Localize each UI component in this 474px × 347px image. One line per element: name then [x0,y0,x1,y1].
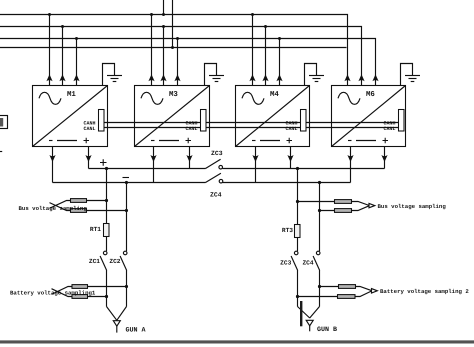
wire gun A + feeder upper [106,169,108,252]
wire AC drop 3 [76,39,78,86]
svg-text:M1: M1 [67,91,76,99]
wire gun A + feeder lower [106,270,108,306]
junction battery sampling 2 upper [318,285,321,288]
module M1 AC sine symbol [39,92,61,104]
junction top 1 [48,13,51,16]
wire DC lead M6 - [350,147,352,183]
resistor bus sampling A lower [71,209,87,213]
wire battery sampling 2 upper [320,287,372,291]
module M3 minus mark [151,140,155,142]
wire DC lead M3 - [153,147,155,183]
contactor ZC3 contact [219,165,223,169]
DC lead arrow M6 + [381,155,387,162]
junction battery sampling 1 lower [105,295,108,298]
junction top 3 [162,13,165,16]
switch ZC3 gunB [294,251,298,255]
module M6 plus mark [383,138,389,144]
junction bus sampling A upper [105,199,108,202]
module M3 plus mark [186,138,192,144]
junction battery sampling 1 upper [125,285,128,288]
wire DC lead M4 - [255,147,257,183]
DC lead arrow M3 + [186,155,192,162]
module M3 bar mark [159,140,179,142]
AC input arrow 10 [344,74,350,81]
ground of module M3 [205,64,217,86]
module M3 CAN connector [201,110,207,132]
AC input arrow 5 [160,74,166,81]
ground of module M6 [401,64,413,86]
wire AC bus line 2 [0,27,362,86]
module M1 plus mark [84,138,90,144]
junction top 9 [176,37,179,40]
AC input arrow 4 [148,74,154,81]
wire AC drop 5 [163,27,165,86]
wire + bus right [223,168,385,170]
wire bus sampling A upper [50,201,107,209]
wire AC drop 2 [62,27,64,86]
contactor ZC3 blade [206,159,221,168]
junction top 2 [150,13,153,16]
junction top 7 [264,25,267,28]
AC input arrow 12 [372,74,378,81]
AC input arrow 7 [249,74,255,81]
wire battery sampling 1 lower [52,289,107,297]
AC input arrow 6 [174,74,180,81]
junction DC bus 4 [318,181,321,184]
svg-text:CANL: CANL [185,126,197,132]
cropped component at left edge [0,116,8,129]
wire DC lead M1 + [88,147,90,169]
svg-text:CANL: CANL [383,126,395,132]
wire gun A - feeder lower [126,270,128,306]
wire gun A funnel [107,307,127,321]
module M6 bar mark [356,140,376,142]
DC lead arrow M4 + [287,155,293,162]
AC input arrow 8 [262,74,268,81]
resistor battery sampling 2 upper [339,285,356,289]
resistor bus sampling A upper [71,199,87,203]
junction battery sampling 2 lower [296,295,299,298]
module M4 CAN connector [301,110,307,132]
wire - bus right [223,182,351,184]
junction DC bus 2 [125,181,128,184]
module M1 bar mark [57,140,77,142]
DC lead arrow M1 + [85,155,91,162]
module M4 bar mark [260,140,280,142]
arrow battery sampling 2 [372,289,378,293]
resistor battery sampling 1 lower [72,295,88,299]
junction top 11 [171,46,174,49]
module M3 AC sine symbol [141,92,163,104]
resistor RT1 [104,224,110,237]
svg-text:ZC1: ZC1 [89,258,100,265]
AC input arrow 1 [46,74,52,81]
wire gun B + feeder lower [297,270,299,306]
resistor bus sampling B lower [335,209,352,213]
wire bus sampling A lower [50,203,127,211]
resistor battery sampling 1 upper [72,285,88,289]
wire DC lead M3 + [189,147,191,169]
bottom scrollbar [0,340,474,343]
module M6 box [332,86,406,147]
AC input arrow 9 [276,74,282,81]
wire AC drop 8 [265,27,267,86]
gun B cable mark [300,301,302,326]
node - label [123,177,130,179]
contactor ZC4 blade [206,173,221,182]
module M1 CAN connector [99,110,105,132]
arrow bus sampling B [369,203,375,207]
svg-text:CANL: CANL [83,126,95,132]
resistor battery sampling 2 lower [338,295,356,299]
svg-text:ZC4: ZC4 [302,260,313,267]
junction DC bus 1 [105,167,108,170]
svg-text:Battery voltage sampling1: Battery voltage sampling1 [10,290,96,297]
wire AC bus line 4 [0,47,347,49]
module M4 plus mark [287,138,293,144]
junction top 5 [61,25,64,28]
DC lead arrow M3 - [150,155,156,162]
resistor RT3 [295,225,301,238]
wire bus sampling B upper [298,202,370,206]
svg-text:CANL: CANL [285,126,297,132]
svg-text:RT1: RT1 [90,226,101,233]
wire AC bus line 1 [0,15,348,86]
wire AC drop 7 [252,15,254,86]
junction DC bus 3 [296,167,299,170]
wire AC drop 1 [49,15,51,86]
wire AC bus line 3 [0,39,376,86]
junction bus sampling B lower [318,209,321,212]
junction top 8 [75,37,78,40]
wire AC drop 9 [279,39,281,86]
gun A connector symbol [113,321,120,327]
wire AC drop 6 [177,39,179,86]
switch ZC2 [123,251,127,255]
DC lead arrow M4 - [252,155,258,162]
module M6 AC sine symbol [338,92,360,104]
DC lead arrow M6 - [347,155,353,162]
wire battery sampling 2 lower [298,291,372,297]
wire DC lead M1 - [52,147,54,183]
junction bus sampling A lower [125,209,128,212]
junction top 6 [162,25,165,28]
wire gun B - feeder lower [319,270,321,306]
switch ZC1 [103,251,107,255]
module M1 box [33,86,108,147]
svg-text:Bus voltage sampling: Bus voltage sampling [19,205,88,212]
wire DC lead M6 + [384,147,386,169]
DC lead arrow M1 - [49,155,55,162]
wire AC drop 4 [151,15,153,86]
svg-text:ZC3: ZC3 [211,150,223,157]
svg-text:RT3: RT3 [282,227,293,234]
svg-text:Battery voltage sampling 2: Battery voltage sampling 2 [380,288,469,295]
ground of module M1 [103,64,115,86]
wire bus sampling B lower [320,206,370,211]
wire - bus left [53,182,206,184]
contactor ZC4 contact [219,179,223,183]
ground of module M4 [305,64,317,86]
wire CANH bus [99,122,405,124]
AC input arrow 3 [73,74,79,81]
module M6 CAN connector [399,110,405,132]
wire + bus left [89,168,206,170]
svg-text:M4: M4 [270,91,279,99]
wire gun B - feeder upper [319,183,321,252]
svg-text:Bus voltage sampling: Bus voltage sampling [378,203,447,210]
module M6 minus mark [348,140,352,142]
AC input arrow 11 [358,74,364,81]
module M4 minus mark [252,140,256,142]
wire gun A - feeder upper [126,183,128,252]
svg-text:ZC4: ZC4 [210,192,222,199]
junction top 10 [278,37,281,40]
wire CANL bus [99,127,405,129]
module M4 box [236,86,310,147]
module M4 AC sine symbol [242,92,264,104]
wire DC lead M4 + [290,147,292,169]
svg-text:ZC2: ZC2 [109,258,120,265]
junction bus sampling B upper [296,200,299,203]
node + label [100,159,107,165]
svg-text:M3: M3 [169,91,178,99]
resistor bus sampling B upper [335,200,352,204]
gun B connector symbol [306,320,313,326]
svg-text:GUN A: GUN A [126,327,147,335]
wire gun B funnel [298,307,320,319]
wire top feed A [163,0,165,15]
switch ZC4 gunB [316,251,320,255]
wire top feed B [172,0,174,48]
module M3 box [135,86,210,147]
junction top 4 [251,13,254,16]
svg-text:M6: M6 [366,91,375,99]
wire battery sampling 1 upper [52,287,127,295]
AC input arrow 2 [59,74,65,81]
module M1 minus mark [49,140,53,142]
svg-text:GUN B: GUN B [317,326,337,334]
svg-text:ZC3: ZC3 [280,260,291,267]
wire gun B + feeder upper [297,169,299,252]
